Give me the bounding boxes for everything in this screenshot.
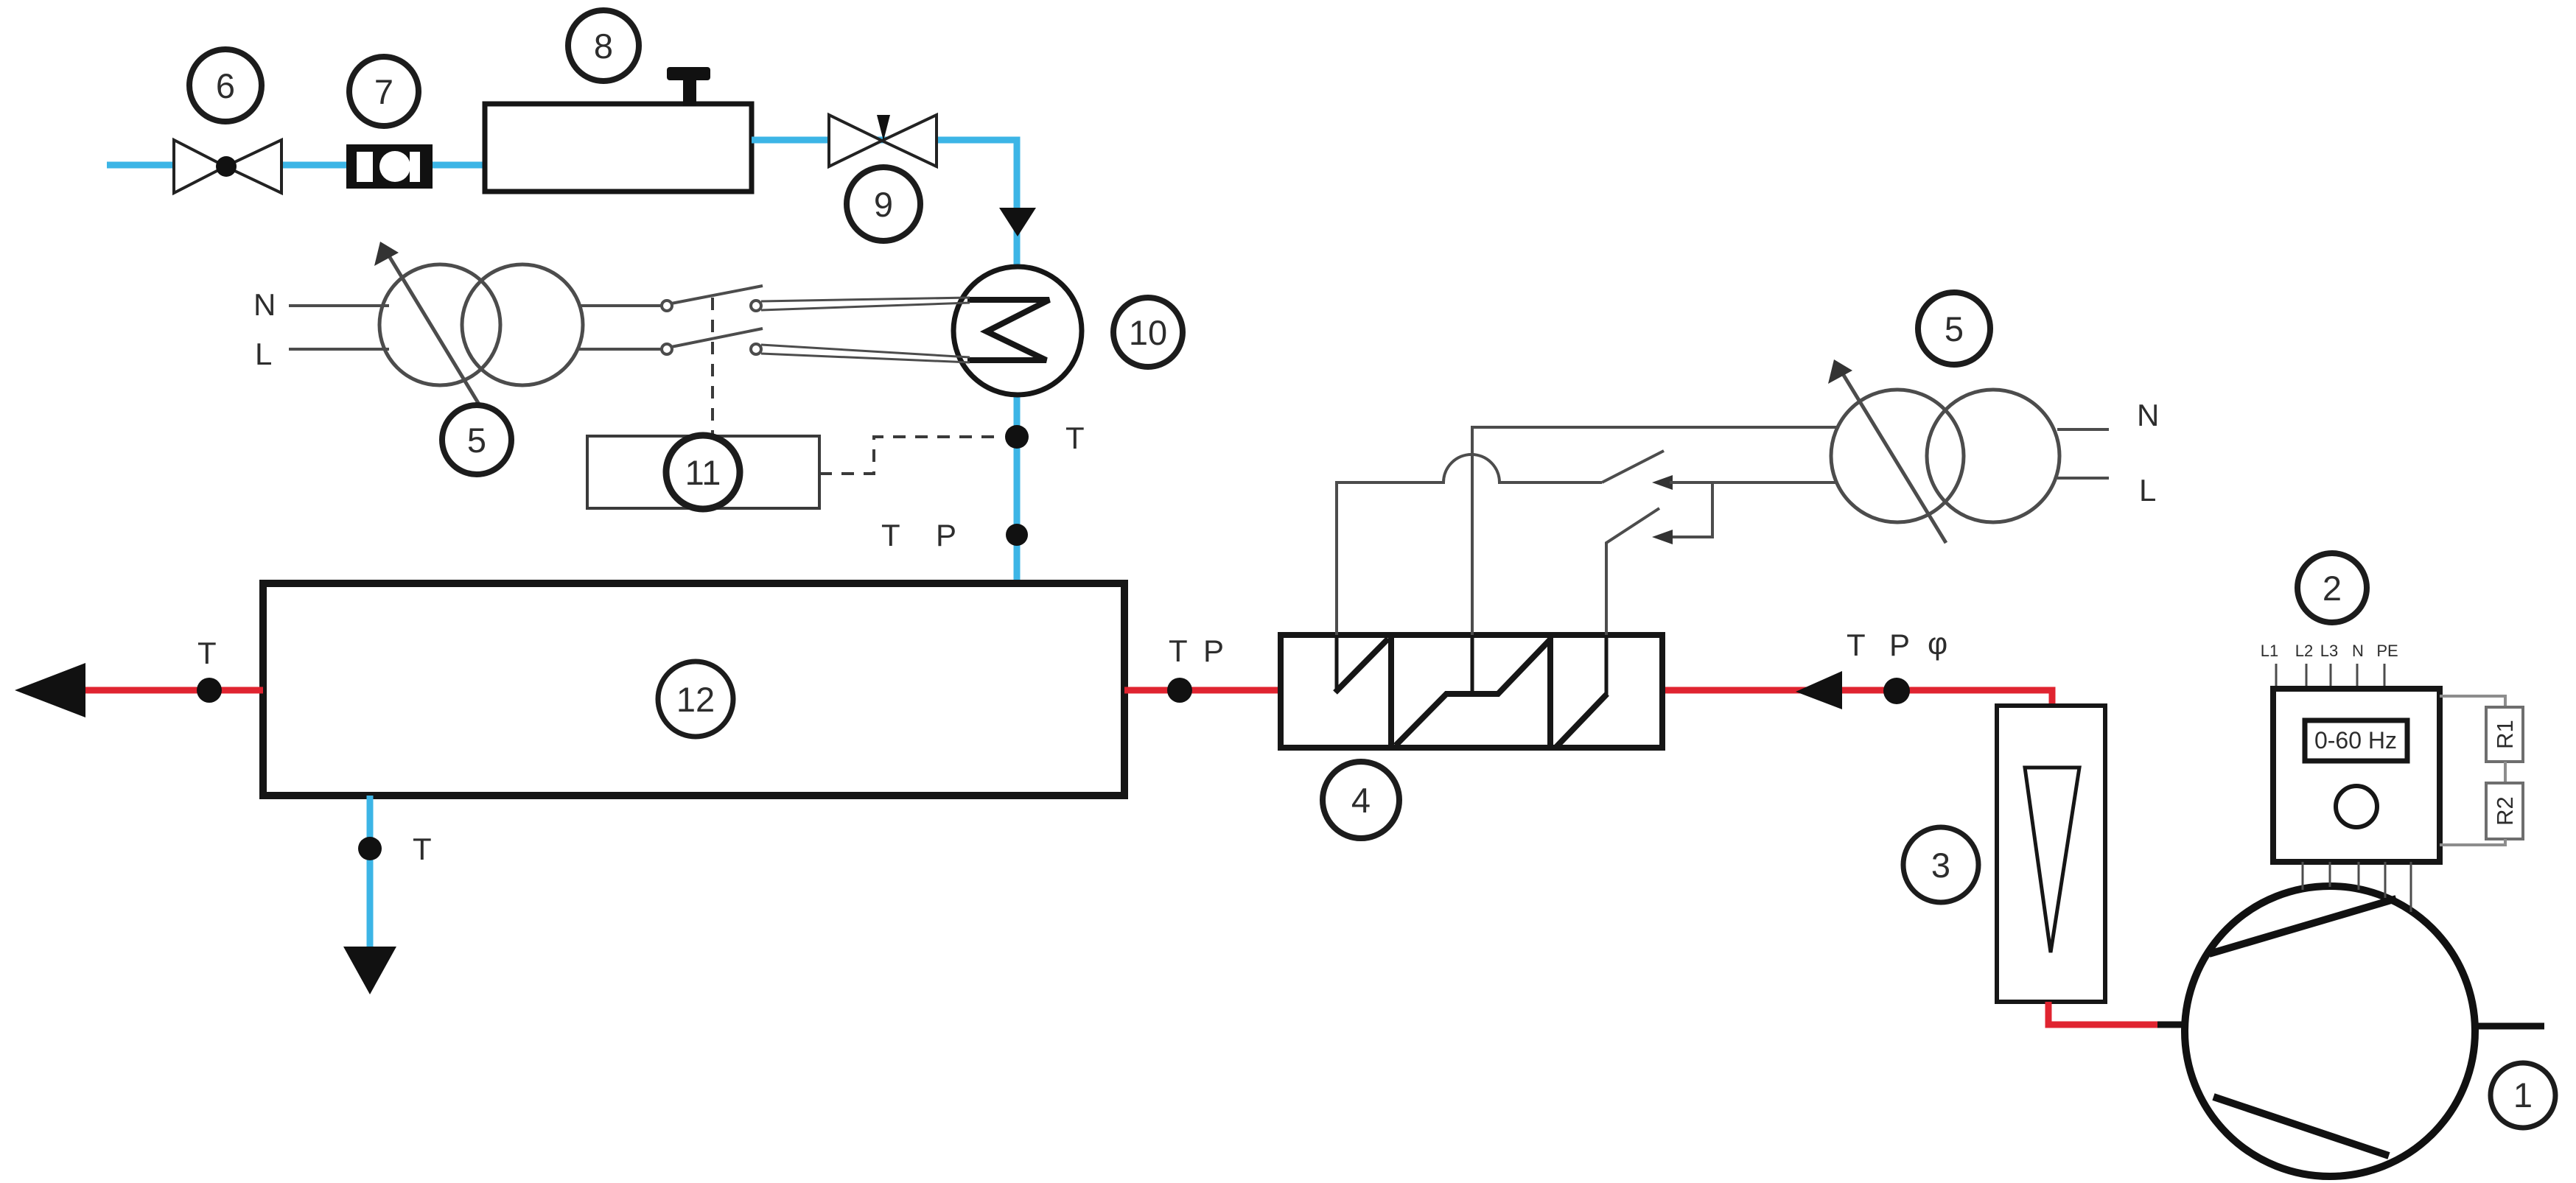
label circle 2	[2297, 553, 2367, 622]
wire converter to brake resistors	[2440, 696, 2505, 707]
label circle 7	[349, 57, 419, 126]
climatic chamber 12	[263, 583, 1124, 796]
wire: red air pipe from fan to heater block 4	[1662, 690, 2052, 706]
wire: fan suction stub (right)	[2474, 1023, 2544, 1030]
svg-text:L3: L3	[2320, 642, 2338, 660]
label circle 5 (left variac)	[442, 405, 511, 474]
label circle 1	[2491, 1063, 2555, 1128]
svg-text:T: T	[413, 832, 432, 866]
label circle 4	[1323, 762, 1399, 838]
switch blade upper	[671, 286, 763, 303]
wire: blue pipe from tank 8 through valve 9 down to heater 10	[752, 140, 1017, 586]
svg-text:T: T	[197, 636, 217, 670]
wire stage2 to variac upper	[1472, 427, 1839, 635]
flow arrow toward heater block	[1796, 671, 1842, 709]
svg-text:φ: φ	[1928, 626, 1947, 661]
switch contacts (heater 10 circuit)	[662, 301, 761, 354]
heater stage 3 element	[1556, 635, 1607, 747]
connector between contacts	[1670, 482, 1712, 537]
switch contact upper	[1652, 475, 1673, 490]
node T on drain	[358, 832, 432, 866]
label circle 9	[847, 167, 920, 241]
svg-text:7: 7	[374, 72, 393, 111]
svg-text:L: L	[255, 337, 272, 371]
svg-text:R1: R1	[2492, 720, 2518, 749]
label circle 5 (right variac)	[1918, 292, 1990, 365]
svg-text:N: N	[2137, 398, 2159, 432]
wire variac right to N	[2057, 428, 2109, 431]
flow arrow on steam line above heater 10	[999, 208, 1036, 236]
switch blade lower	[671, 329, 763, 347]
svg-text:3: 3	[1931, 846, 1950, 885]
rotameter 3	[1997, 706, 2105, 1002]
svg-text:R2: R2	[2492, 796, 2518, 826]
svg-text:N: N	[253, 287, 276, 322]
switch blade lower (heater 4 circuit)	[1606, 508, 1659, 635]
svg-text:T: T	[881, 518, 900, 552]
svg-text:8: 8	[594, 27, 613, 66]
svg-text:1: 1	[2513, 1075, 2533, 1114]
supply terminal labels L1 L2 L3 N PE	[2261, 642, 2398, 660]
svg-text:5: 5	[467, 421, 486, 460]
drain arrow down	[343, 947, 396, 994]
svg-text:P: P	[1203, 633, 1224, 668]
heater stage 2 element	[1396, 635, 1550, 745]
resistor R1	[2486, 707, 2523, 762]
switch blade upper (heater 4 circuit)	[1602, 451, 1664, 482]
node T P phi after fan	[1847, 626, 1947, 704]
wire switch to heater 10 upper	[761, 298, 970, 310]
svg-text:PE: PE	[2376, 642, 2398, 660]
wire: red air pipe chamber 12 to heater block 4	[1124, 687, 1281, 694]
svg-text:L: L	[2139, 473, 2156, 508]
wire upper contact to variac lower	[1670, 481, 1838, 484]
supply wires into converter 2	[2276, 664, 2384, 689]
wire stage1 up and over to switch (with jump hump)	[1337, 454, 1602, 635]
svg-text:0-60 Hz: 0-60 Hz	[2314, 727, 2397, 754]
motor wires converter 2 to fan 1	[2303, 862, 2411, 912]
wire: black stub into fan	[2157, 1022, 2187, 1028]
tank 8 (steam generator vessel)	[485, 67, 752, 192]
fan 1 (blower)	[2185, 886, 2475, 1176]
svg-text:T: T	[1169, 633, 1188, 668]
wire switch to heater 10 lower	[761, 345, 970, 362]
wire variac to switch upper	[579, 304, 662, 307]
svg-text:11: 11	[685, 453, 721, 492]
wire: red pipe rotameter to fan 1	[2048, 1002, 2159, 1025]
svg-text:L2: L2	[2295, 642, 2313, 660]
switch contact lower	[1652, 530, 1673, 544]
svg-text:N: N	[2352, 642, 2364, 660]
exhaust arrow left	[15, 663, 85, 717]
wire: red exhaust pipe out of chamber 12 (left)	[44, 687, 263, 694]
thermostat box 11	[587, 436, 819, 508]
dashed sensing line from box 11 to node T	[819, 437, 1002, 474]
svg-text:9: 9	[874, 185, 893, 224]
svg-text:L1: L1	[2261, 642, 2278, 660]
valve 6 (shut-off valve)	[174, 140, 281, 193]
svg-text:6: 6	[216, 66, 235, 105]
svg-text:2: 2	[2323, 569, 2342, 608]
frequency converter 2	[2273, 689, 2440, 862]
svg-text:T: T	[1065, 421, 1085, 455]
label circle 10	[1113, 298, 1183, 367]
electric air heater block 4	[1281, 635, 1662, 748]
wire: blue inlet pipe to valve 6 and tank 8	[107, 162, 486, 169]
wire variac to switch lower	[579, 348, 662, 351]
node T P at chamber inlet	[1167, 633, 1224, 703]
label circle 11	[666, 435, 740, 509]
wire N to variac 5	[289, 304, 389, 307]
electric steam heater 10	[953, 267, 1082, 395]
svg-text:5: 5	[1945, 309, 1964, 348]
node T on exhaust	[197, 636, 222, 703]
wire: blue condensate drain under chamber 12	[367, 796, 374, 958]
variac transformer 5 (right)	[1828, 359, 2059, 543]
valve 9 (control valve)	[829, 115, 937, 166]
variac transformer 5 (left)	[374, 242, 583, 407]
dashed actuator link from thermostat 11 to switch	[711, 298, 714, 436]
flow meter 7	[346, 144, 433, 189]
svg-text:P: P	[1889, 628, 1910, 662]
svg-text:4: 4	[1351, 781, 1371, 820]
node T after heater 10	[1005, 421, 1085, 455]
svg-text:P: P	[936, 518, 956, 552]
label circle 12	[658, 661, 733, 737]
label circle 3	[1903, 827, 1978, 902]
wire R2 back to converter	[2440, 839, 2505, 845]
svg-text:10: 10	[1129, 313, 1167, 352]
wire L to variac 5	[289, 348, 389, 351]
resistor R2	[2486, 783, 2523, 839]
label circle 6	[189, 49, 262, 122]
svg-text:12: 12	[676, 680, 715, 719]
node T P before chamber 12	[881, 518, 1028, 552]
heater stage 1 element	[1335, 635, 1388, 692]
wire variac right to L	[2057, 477, 2109, 480]
wire R1 to R2	[2504, 762, 2507, 783]
label circle 8	[568, 10, 639, 81]
svg-text:T: T	[1847, 628, 1866, 662]
